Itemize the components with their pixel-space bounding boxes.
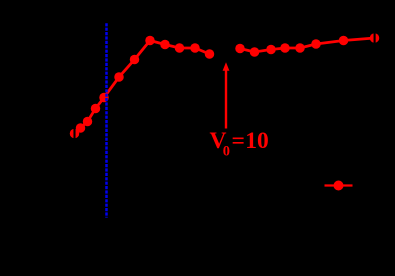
- right axis border (black, overdraws last marker): [374, 23, 376, 218]
- svg-text:=: =: [232, 128, 245, 154]
- markers branch A: [70, 36, 215, 139]
- left axis border (black, overdraws first marker): [73, 23, 75, 218]
- threshold line (blue dashed vertical, drawn over curve): [105, 23, 108, 217]
- data curve segment A (left branch polyline): [75, 41, 210, 134]
- annotation arrow head: [223, 62, 230, 71]
- svg-text:0: 0: [223, 144, 230, 160]
- legend sample line: [325, 184, 353, 186]
- markers branch B: [235, 33, 379, 57]
- legend marker: [334, 181, 344, 191]
- annotation arrow shaft: [225, 68, 227, 129]
- data curve segment B (right branch polyline): [240, 38, 375, 52]
- svg-text:10: 10: [245, 128, 268, 154]
